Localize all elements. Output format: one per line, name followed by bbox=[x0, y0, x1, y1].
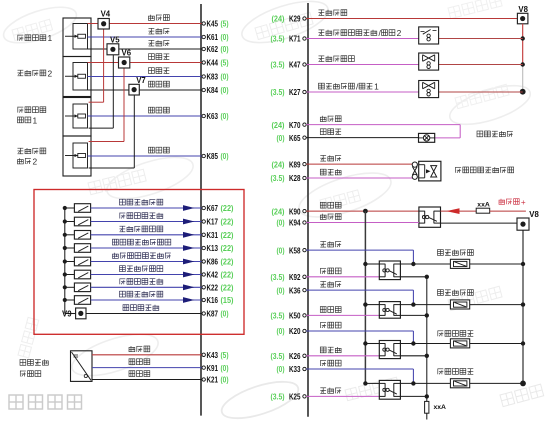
svg-text:2: 2 bbox=[48, 68, 53, 78]
svg-text:1: 1 bbox=[33, 115, 38, 125]
svg-text:V6: V6 bbox=[122, 49, 132, 58]
svg-text:(0): (0) bbox=[221, 112, 229, 121]
svg-text:(3.5): (3.5) bbox=[271, 273, 285, 282]
svg-text:(22): (22) bbox=[221, 218, 234, 227]
svg-text:K20: K20 bbox=[289, 326, 301, 336]
svg-text:K47: K47 bbox=[289, 60, 301, 70]
svg-text:V5: V5 bbox=[110, 36, 120, 45]
svg-text:V7: V7 bbox=[136, 76, 146, 85]
svg-text:(3.5): (3.5) bbox=[271, 61, 285, 70]
svg-text:V4: V4 bbox=[101, 10, 111, 19]
svg-text:(15): (15) bbox=[221, 296, 234, 305]
svg-text:K89: K89 bbox=[289, 159, 301, 169]
svg-text:K16: K16 bbox=[207, 295, 219, 305]
svg-text:1: 1 bbox=[48, 33, 53, 43]
svg-text:(24): (24) bbox=[272, 121, 285, 130]
svg-text:K44: K44 bbox=[207, 58, 219, 68]
svg-text:2: 2 bbox=[397, 28, 402, 38]
svg-text:(3.5): (3.5) bbox=[271, 88, 285, 97]
svg-text:K29: K29 bbox=[289, 14, 301, 24]
svg-text:K27: K27 bbox=[289, 87, 301, 97]
svg-text:(0): (0) bbox=[221, 86, 229, 95]
svg-text:(0): (0) bbox=[277, 219, 285, 228]
svg-text:(0): (0) bbox=[221, 376, 229, 385]
svg-text:2: 2 bbox=[33, 157, 38, 167]
svg-text:(3.5): (3.5) bbox=[271, 312, 285, 321]
svg-text:K85: K85 bbox=[207, 151, 219, 161]
svg-text:K94: K94 bbox=[289, 218, 301, 228]
svg-text:K33: K33 bbox=[289, 364, 301, 374]
svg-text:(3.5): (3.5) bbox=[271, 174, 285, 183]
svg-text:K28: K28 bbox=[289, 173, 301, 183]
svg-text:K25: K25 bbox=[289, 392, 301, 402]
svg-text:K91: K91 bbox=[207, 363, 219, 373]
svg-text:(0): (0) bbox=[221, 45, 229, 54]
svg-text:K22: K22 bbox=[207, 283, 219, 293]
svg-text:K61: K61 bbox=[207, 32, 219, 42]
svg-text:K36: K36 bbox=[289, 285, 301, 295]
svg-text:K65: K65 bbox=[289, 133, 301, 143]
svg-text:K17: K17 bbox=[207, 217, 219, 227]
svg-text:(0): (0) bbox=[277, 365, 285, 374]
svg-text:(3.5): (3.5) bbox=[271, 35, 285, 44]
svg-text:(22): (22) bbox=[221, 231, 234, 240]
svg-text:K26: K26 bbox=[289, 351, 301, 361]
svg-text:(3.5): (3.5) bbox=[271, 393, 285, 402]
svg-text:K90: K90 bbox=[289, 206, 301, 216]
svg-text:xxA: xxA bbox=[477, 201, 490, 208]
svg-text:K21: K21 bbox=[207, 375, 219, 385]
svg-text:(22): (22) bbox=[221, 258, 234, 267]
svg-text:K58: K58 bbox=[289, 245, 301, 255]
svg-text:(0): (0) bbox=[221, 33, 229, 42]
svg-text:(24): (24) bbox=[272, 160, 285, 169]
svg-text:(24): (24) bbox=[272, 15, 285, 24]
svg-text:K62: K62 bbox=[207, 44, 219, 54]
svg-text:(0): (0) bbox=[221, 73, 229, 82]
svg-text:K13: K13 bbox=[207, 243, 219, 253]
svg-text:(0): (0) bbox=[221, 152, 229, 161]
svg-text:K84: K84 bbox=[207, 85, 219, 95]
svg-text:K70: K70 bbox=[289, 120, 301, 130]
svg-text:V8: V8 bbox=[518, 5, 528, 14]
svg-text:(0): (0) bbox=[277, 246, 285, 255]
svg-text:(22): (22) bbox=[221, 284, 234, 293]
svg-text:(22): (22) bbox=[221, 271, 234, 280]
svg-text:K87: K87 bbox=[207, 309, 219, 319]
svg-text:(5): (5) bbox=[221, 351, 229, 360]
svg-text:K67: K67 bbox=[207, 203, 219, 213]
svg-text:K92: K92 bbox=[289, 272, 301, 282]
svg-text:(0): (0) bbox=[277, 286, 285, 295]
svg-text:K63: K63 bbox=[207, 111, 219, 121]
svg-text:K31: K31 bbox=[207, 230, 219, 240]
svg-text:K50: K50 bbox=[289, 311, 301, 321]
svg-text:(0): (0) bbox=[277, 327, 285, 336]
svg-text:(24): (24) bbox=[272, 207, 285, 216]
svg-text:K83: K83 bbox=[207, 72, 219, 82]
svg-text:(0): (0) bbox=[221, 310, 229, 319]
svg-text:V8: V8 bbox=[529, 210, 539, 219]
svg-text:K43: K43 bbox=[207, 350, 219, 360]
svg-text:(5): (5) bbox=[221, 20, 229, 29]
svg-text:K42: K42 bbox=[207, 270, 219, 280]
svg-text:1: 1 bbox=[374, 82, 379, 92]
svg-text:(0): (0) bbox=[277, 134, 285, 143]
svg-text:(5): (5) bbox=[221, 59, 229, 68]
svg-text:(22): (22) bbox=[221, 204, 234, 213]
svg-text:(0): (0) bbox=[221, 364, 229, 373]
svg-text:(3.5): (3.5) bbox=[271, 352, 285, 361]
svg-text:K86: K86 bbox=[207, 257, 219, 267]
svg-text:K71: K71 bbox=[289, 34, 301, 44]
svg-text:(22): (22) bbox=[221, 244, 234, 253]
svg-text:+: + bbox=[521, 198, 526, 207]
svg-text:xxA: xxA bbox=[434, 404, 447, 411]
svg-text:K45: K45 bbox=[207, 19, 219, 29]
svg-text:V9: V9 bbox=[62, 310, 72, 319]
